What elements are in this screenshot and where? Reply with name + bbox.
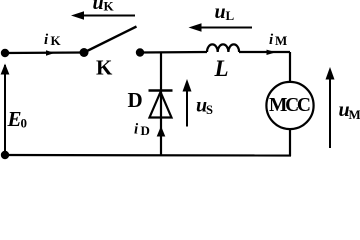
svg-text:D: D (141, 123, 150, 138)
svg-text:E: E (7, 107, 22, 131)
source rail E0 with up arrow (1, 64, 10, 156)
svg-text:L: L (214, 56, 229, 81)
switch K blade (84, 27, 137, 53)
switch K contact left node (80, 48, 89, 57)
svg-text:0: 0 (21, 116, 28, 131)
label uL (215, 1, 235, 23)
switch K contact right node (136, 48, 144, 56)
wire diode branch vertical (160, 52, 162, 155)
svg-text:M: M (349, 107, 360, 122)
label uM (339, 99, 360, 122)
wire top rail after inductor (239, 51, 290, 53)
node left top (1, 49, 9, 57)
diode D cathode bar (149, 89, 173, 91)
wire from corner down to motor (289, 52, 291, 83)
label iD (134, 122, 150, 139)
label iK (44, 32, 62, 48)
voltage arrow uM (326, 67, 335, 148)
voltage arrow uL (189, 23, 253, 32)
label uK (93, 0, 115, 14)
label E0 (7, 107, 28, 131)
current arrow iM on wire (267, 50, 277, 55)
svg-text:L: L (226, 8, 235, 23)
svg-text:i: i (269, 32, 274, 48)
svg-text:u: u (215, 1, 226, 23)
wire motor bottom down (289, 128, 291, 156)
svg-text:S: S (206, 103, 213, 117)
node left bottom (1, 151, 9, 159)
voltage arrow uS (183, 79, 192, 127)
voltage arrow uK (71, 11, 135, 20)
svg-text:D: D (128, 88, 143, 112)
svg-text:M: M (275, 33, 287, 48)
wire top rail right segment (140, 51, 207, 54)
svg-text:K: K (104, 0, 115, 14)
wire bottom rail (5, 154, 291, 157)
diode D triangle (150, 92, 172, 118)
current arrow iD on branch (157, 126, 166, 137)
label uS (196, 95, 213, 118)
svg-text:K: K (51, 33, 62, 48)
wire top rail left segment (5, 51, 84, 54)
svg-text:MCC: MCC (269, 95, 311, 116)
svg-text:i: i (134, 122, 139, 138)
svg-text:i: i (44, 32, 49, 48)
label iM (269, 32, 287, 48)
svg-text:u: u (93, 0, 104, 14)
motor MCC circle (266, 82, 313, 129)
current arrow iK on wire (46, 50, 55, 55)
svg-text:K: K (96, 56, 113, 80)
inductor L (207, 44, 239, 52)
